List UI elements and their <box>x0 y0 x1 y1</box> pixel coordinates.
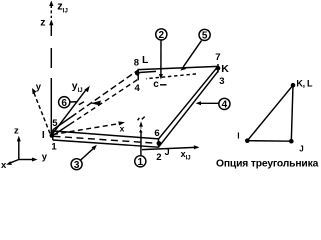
plate top face edge L-I <box>53 117 71 130</box>
svg-text:y: y <box>36 81 42 92</box>
node J <box>157 141 162 146</box>
svg-text:z: z <box>14 125 19 136</box>
svg-text:K, L: K, L <box>296 79 313 89</box>
face number 5 circled <box>180 29 210 70</box>
global axis z <box>18 140 20 160</box>
svg-text:4: 4 <box>222 100 228 111</box>
plate top face edge K-L <box>139 66 219 69</box>
wire triangle edge K,L to J <box>291 85 293 141</box>
svg-text:Опция треугольника: Опция треугольника <box>216 159 319 170</box>
global axis y <box>19 159 34 161</box>
svg-text:5: 5 <box>52 118 58 129</box>
face number 1 circled <box>135 129 146 168</box>
svg-text:J: J <box>299 145 303 154</box>
axis z solid arrow <box>49 20 53 37</box>
axis z_IJ dashed vertical top <box>49 1 53 19</box>
node I of triangle <box>245 138 250 143</box>
svg-text:1: 1 <box>51 142 57 153</box>
svg-text:L: L <box>142 54 149 66</box>
face number 6 circled <box>59 97 101 109</box>
svg-text:3: 3 <box>74 160 80 171</box>
node J of triangle <box>289 139 294 144</box>
plate bottom face edge I-J <box>53 140 159 147</box>
axis x dashed from node I to right <box>53 121 125 134</box>
svg-text:4: 4 <box>135 83 141 94</box>
node L <box>135 71 140 76</box>
plate bottom face edge J-K <box>159 71 219 147</box>
svg-text:z: z <box>40 17 45 29</box>
svg-text:x: x <box>1 160 7 171</box>
plate top face edge J-K <box>159 66 219 139</box>
corner tick L <box>137 69 139 81</box>
svg-text:y: y <box>42 151 48 162</box>
svg-text:K: K <box>221 63 229 75</box>
svg-text:8: 8 <box>134 57 139 68</box>
svg-text:6: 6 <box>154 128 159 139</box>
svg-text:6: 6 <box>61 98 67 109</box>
plate bottom face edge L-I hidden dashed <box>52 124 70 136</box>
node K,L of triangle <box>291 83 296 88</box>
wire triangle edge I to K,L <box>247 85 293 141</box>
global triad origin <box>1 125 48 171</box>
svg-text:c: c <box>153 79 159 90</box>
svg-text:I: I <box>237 131 239 141</box>
node K <box>216 66 221 71</box>
plate mid dashed line I-J <box>54 136 157 143</box>
axis y dashed up-left from node I <box>32 88 50 134</box>
plate bottom face edge K-L hidden dashed <box>146 74 196 79</box>
plate mid line at node L <box>140 71 157 72</box>
svg-text:x: x <box>120 124 125 134</box>
svg-text:I: I <box>42 129 45 141</box>
wire z axis continuation down to node I <box>50 48 52 68</box>
face number 2 circled <box>156 29 167 80</box>
svg-text:5: 5 <box>202 31 208 42</box>
node I <box>50 133 55 138</box>
svg-text:7: 7 <box>215 52 220 63</box>
axis y_IJ solid up-right from node I <box>52 86 90 135</box>
face number 3 circled <box>71 145 97 171</box>
corner tick I <box>52 130 54 140</box>
svg-text:J: J <box>165 147 170 157</box>
axis z element dashed small arrow at center <box>138 117 145 133</box>
corner tick J <box>158 139 160 148</box>
triangle option inset <box>237 79 313 154</box>
svg-text:2: 2 <box>156 152 161 163</box>
axis x_IJ arrow at node J <box>142 145 200 149</box>
wire triangle edge J to I <box>247 140 291 143</box>
face number 4 circled <box>196 98 230 110</box>
corner tick K <box>217 64 219 73</box>
svg-text:3: 3 <box>219 76 224 87</box>
global axis x <box>10 160 19 164</box>
svg-text:1: 1 <box>138 157 144 168</box>
svg-text:2: 2 <box>159 30 165 41</box>
plate top face edge I-J <box>53 131 159 139</box>
